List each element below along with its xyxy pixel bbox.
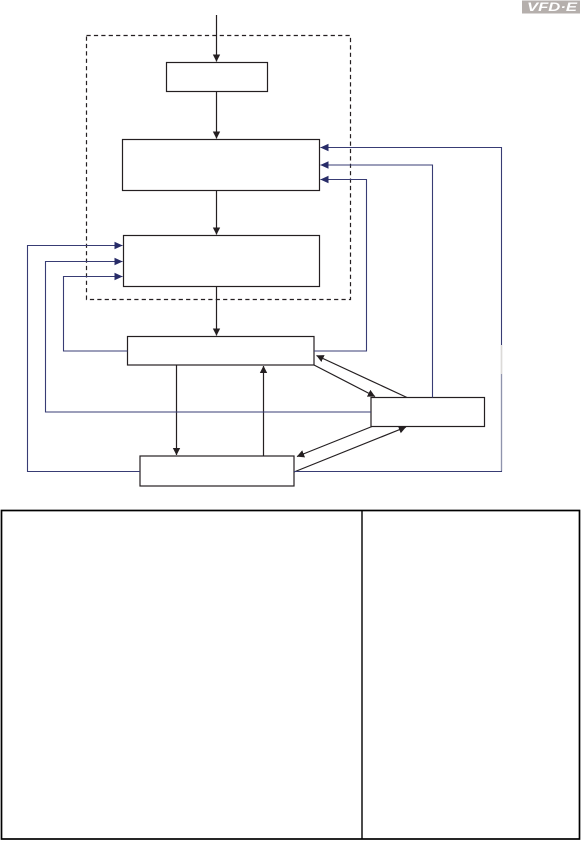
wire: arrow B4 down to B6 [176, 365, 178, 455]
svg-text:VFD·E: VFD·E [527, 0, 578, 14]
box B1 [167, 63, 268, 92]
wire: diagonal arrow B6 to B5 [294, 427, 406, 472]
wire: diagonal arrow B5 to B4 [317, 356, 408, 398]
wire: diagonal arrow B4 to B5 [314, 365, 375, 397]
box B6 [140, 456, 294, 486]
table: vertical divider [361, 511, 363, 840]
box B5 [371, 398, 485, 427]
wire: entry arrow into box B1 [216, 15, 218, 62]
box B2 [123, 140, 320, 191]
VFD-E logo [522, 0, 580, 14]
box B3 [124, 236, 320, 287]
wire: blue feedback B4-left to B3 (inner left) [64, 277, 128, 352]
wire: arrow B2 to B3 [216, 191, 218, 235]
wire: diagonal arrow B5 to B6 [297, 427, 372, 457]
dashed boundary box [87, 36, 351, 300]
wire: blue feedback loop B6-left to B3 (outer left) [28, 246, 141, 472]
wire: blue feedback B4-right to B2 (inner right) [314, 180, 367, 352]
wire: blue feedback loop B6-right to B2 (outer right) [294, 148, 502, 472]
wire: arrow B6 up to B4 [263, 366, 265, 456]
table: outer frame [2, 511, 580, 840]
wire: arrow B3 to B4 [216, 287, 218, 336]
wire: arrow B1 to B2 [216, 92, 218, 139]
wire: blue feedback loop B5-top to B2 (middle right) [321, 165, 433, 398]
wire: blue feedback loop B5-left to B3 (middle left) [46, 262, 372, 413]
box B4 [128, 337, 315, 366]
